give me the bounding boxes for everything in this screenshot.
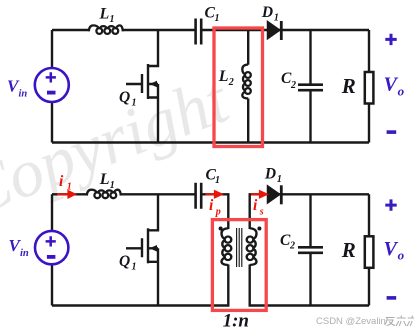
wire bottom rail	[52, 141, 369, 143]
label plus top	[385, 34, 396, 45]
transistor Q1 channel bar	[147, 64, 149, 99]
transformer dot secondary	[257, 227, 261, 231]
source Vin circle	[35, 68, 69, 102]
svg-text:CSDN @Zevalin: CSDN @Zevalin	[316, 316, 386, 327]
capacitor C2 plates	[298, 247, 323, 253]
inductor L1	[89, 25, 123, 34]
wire L1 to C1	[121, 193, 196, 195]
svg-text:1:n: 1:n	[223, 310, 249, 331]
label minus bottom	[387, 296, 397, 300]
source minus	[47, 255, 56, 259]
svg-text:in: in	[20, 248, 29, 259]
current arrow i1	[57, 191, 75, 197]
svg-text:p: p	[215, 207, 221, 218]
svg-text:D: D	[261, 4, 273, 21]
svg-text:Q: Q	[119, 253, 130, 270]
transistor Q1 source/bottom connections	[148, 248, 158, 305]
transistor Q1 gate	[126, 238, 142, 257]
source minus	[47, 91, 56, 95]
svg-text:1: 1	[67, 181, 72, 192]
transformer dot primary	[219, 227, 223, 231]
transformer primary winding	[222, 228, 232, 265]
highlight box transformer	[212, 220, 266, 311]
wire secondary to D1 and right corner	[250, 194, 369, 229]
svg-text:1: 1	[110, 14, 115, 25]
diode D1	[268, 22, 280, 39]
capacitor C1	[196, 183, 202, 209]
wire top-left to L1	[52, 29, 89, 31]
wire L1 to C1	[123, 29, 196, 31]
right wire through R	[368, 30, 370, 143]
highlight box L2	[214, 28, 263, 147]
svg-text:V: V	[384, 238, 399, 260]
source Vin circle	[35, 231, 68, 264]
svg-text:1: 1	[274, 13, 279, 24]
watermark CJK glyphs	[385, 316, 414, 327]
current arrow is	[251, 191, 266, 197]
wire left side	[51, 194, 53, 305]
current arrow ip	[206, 191, 222, 197]
svg-text:i: i	[59, 173, 64, 190]
capacitor C2 plates	[298, 85, 323, 91]
svg-text:1: 1	[132, 97, 137, 108]
transistor Q1 arrow	[150, 81, 158, 88]
svg-text:Q: Q	[119, 89, 130, 106]
svg-text:1: 1	[215, 175, 220, 186]
capacitor C1	[196, 19, 202, 45]
transformer secondary winding	[247, 228, 257, 265]
svg-text:1: 1	[277, 174, 282, 185]
wire left side	[51, 30, 53, 143]
svg-text:L: L	[218, 68, 229, 85]
svg-text:o: o	[398, 83, 405, 98]
source plus	[46, 236, 56, 246]
svg-text:R: R	[341, 238, 356, 262]
node Q1 drain wire	[148, 194, 158, 230]
svg-text:2: 2	[290, 80, 296, 91]
svg-text:in: in	[19, 89, 28, 100]
wire bottom rail secondary	[250, 265, 369, 306]
transistor Q1 channel bar	[147, 228, 149, 263]
label plus bottom	[385, 199, 396, 210]
label minus top	[387, 130, 397, 134]
resistor R box	[365, 72, 374, 104]
transistor Q1 gate	[126, 74, 142, 93]
svg-text:o: o	[398, 248, 405, 263]
svg-text:2: 2	[289, 241, 295, 252]
source plus	[46, 72, 56, 82]
svg-text:i: i	[253, 197, 258, 214]
capacitor C2 leads	[309, 30, 311, 143]
transistor Q1 arrow	[150, 245, 158, 252]
inductor L1	[87, 190, 121, 199]
right wire through R	[368, 194, 370, 305]
svg-text:1: 1	[132, 262, 137, 273]
wire top-left to L1	[52, 193, 87, 195]
transistor Q1 source/bottom connections	[148, 84, 158, 143]
svg-text:s: s	[259, 207, 264, 218]
svg-text:R: R	[341, 74, 356, 98]
watermark Copyright	[0, 60, 240, 231]
wire C1 to primary	[201, 194, 228, 229]
svg-text:L: L	[99, 171, 110, 188]
svg-text:1: 1	[110, 180, 115, 191]
resistor R box	[365, 236, 374, 267]
capacitor C2 leads	[309, 194, 311, 305]
svg-text:L: L	[99, 5, 110, 22]
wire bottom rail primary	[52, 265, 228, 306]
svg-text:1: 1	[215, 13, 220, 24]
transformer core	[237, 228, 242, 267]
inductor L2 vertical	[247, 30, 249, 65]
svg-text:V: V	[384, 74, 399, 96]
svg-text:i: i	[209, 197, 214, 214]
node Q1 drain wire	[148, 30, 158, 66]
svg-text:2: 2	[228, 77, 234, 88]
diode D1	[268, 186, 280, 203]
wire C1 to right corner	[201, 29, 369, 31]
svg-text:D: D	[264, 165, 276, 182]
